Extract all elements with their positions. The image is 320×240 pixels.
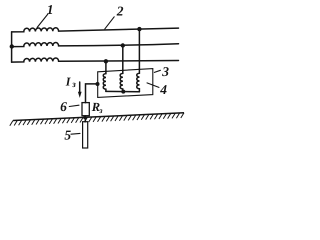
svg-text:6: 6 [60, 99, 67, 114]
svg-text:Rз: Rз [91, 100, 103, 115]
svg-text:5: 5 [64, 128, 71, 143]
svg-text:Iз: Iз [65, 75, 76, 90]
svg-text:1: 1 [47, 2, 54, 17]
svg-text:2: 2 [116, 3, 124, 18]
svg-text:4: 4 [159, 82, 167, 97]
svg-text:3: 3 [161, 64, 169, 79]
